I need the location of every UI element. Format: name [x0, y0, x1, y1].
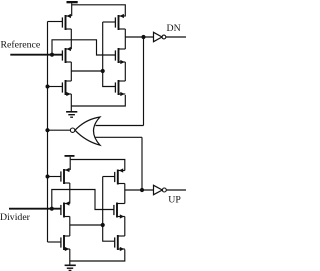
wire M8 drain - M9 drain [69, 217, 71, 237]
wire NOR input 2 [96, 136, 143, 138]
transistor M3 (NMOS reset, upper) [62, 80, 71, 96]
wire M10 drain to UP / M11 source [124, 184, 126, 204]
VDD bar (upper) [67, 1, 78, 16]
svg-text:DN: DN [167, 23, 181, 34]
svg-text:Divider: Divider [0, 212, 31, 223]
wire stage1 node to M10/M12 gates [103, 177, 115, 242]
wire M9 source to ground [69, 249, 71, 265]
wire UP node line [125, 189, 154, 191]
node M3 gate rail junction [46, 85, 50, 89]
wire M2 drain - M3 drain [70, 62, 72, 81]
wire reset rail (NOR output net) [47, 22, 49, 243]
wire M10 gate to stage1 node [103, 176, 115, 178]
wire ground interconnect (upper) [71, 95, 125, 106]
wire NOR output [48, 129, 71, 131]
wire ground interconnect (lower) [70, 250, 125, 262]
ground (lower) [65, 265, 76, 270]
wire NOR input 1 [96, 125, 144, 127]
node stage1 output (lower) [101, 223, 105, 227]
node UP [140, 188, 144, 192]
wire DN node line [125, 36, 153, 38]
transistor M6 (NMOS, upper) [115, 80, 125, 96]
wire Divider input [9, 208, 61, 210]
VDD bar (lower) [65, 155, 75, 170]
transistor M4 (PMOS stage2, upper) [115, 14, 125, 30]
node Divider junction [50, 207, 54, 211]
transistor M9 (NMOS reset, lower) [61, 235, 70, 251]
wire Reference branch to M5 gate [52, 40, 115, 55]
node stage1 output (upper) [101, 69, 105, 73]
wire Divider branch to M11 gate [52, 190, 114, 210]
transistor M11 (NMOS clocked, lower) [114, 203, 125, 219]
wire M1 gate to reset rail [48, 21, 63, 23]
wire M7 gate from rail [48, 176, 61, 178]
wire VDD rail (lower) [70, 160, 125, 171]
wire NOR input 2 to UP node [141, 137, 143, 190]
wire M4 gate to stage1 node [103, 21, 116, 23]
transistor M2 (PMOS clocked by Reference, upper) [62, 47, 71, 63]
wire M5 drain - M6 drain [124, 62, 126, 81]
wire stage1 output branch [71, 70, 102, 72]
transistor M8 (PMOS clocked by Divider, lower) [61, 201, 70, 217]
wire M11 drain - M12 drain [124, 217, 126, 237]
svg-text:Reference: Reference [1, 40, 41, 51]
svg-text:UP: UP [168, 195, 181, 206]
wire M7 drain - M8 source [69, 183, 71, 204]
wire stage1 node to M4/M6 gates [103, 22, 116, 87]
wire Reference input [10, 54, 62, 56]
wire M9 gate from rail end [48, 241, 61, 243]
inverter U2 (DN output) [154, 32, 187, 41]
node Reference junction [50, 53, 54, 57]
wire M3 gate from rail [48, 86, 63, 88]
wire M3 source to ground [70, 94, 72, 112]
wire M1 drain - M2 source [70, 15, 72, 17]
transistor M10 (PMOS stage2, lower) [115, 168, 125, 184]
wire M4 drain to DN / M5 source [124, 29, 126, 49]
node M7 gate rail junction [46, 175, 50, 179]
transistor M5 (NMOS clocked, upper) [115, 48, 125, 64]
wire VDD rail (upper) [72, 5, 126, 17]
transistor M7 (PMOS reset, lower) [61, 168, 70, 184]
node NOR output on rail [45, 128, 49, 132]
transistor M1 (PMOS reset, upper) [62, 14, 71, 30]
wire DN to NOR input 1 [143, 37, 145, 126]
ground (upper) [66, 112, 77, 117]
wire stage1 output branch (lower) [70, 224, 103, 226]
NOR gate U1 (mirrored) [70, 117, 100, 145]
node DN [141, 35, 145, 39]
transistor M12 (NMOS, lower) [115, 235, 125, 251]
inverter U3 (UP output) [154, 185, 187, 194]
